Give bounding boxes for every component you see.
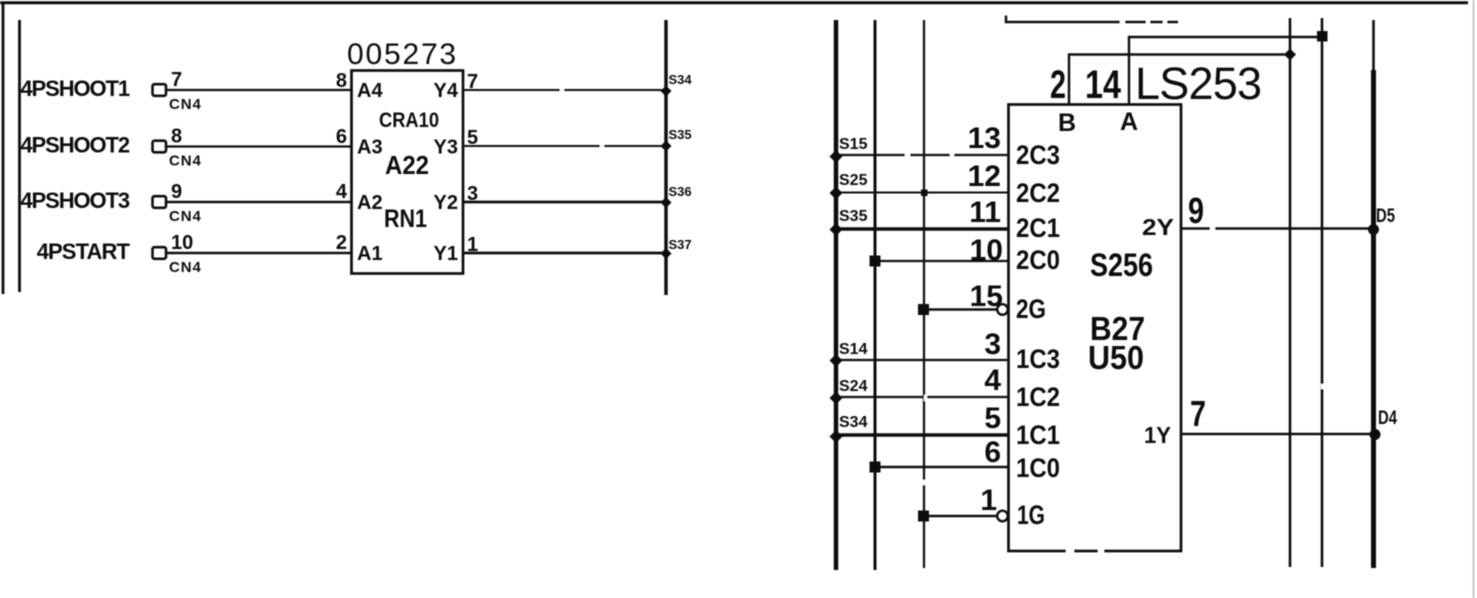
svg-text:CN4: CN4 (169, 259, 202, 276)
svg-text:2: 2 (336, 232, 347, 254)
svg-text:A2: A2 (357, 192, 383, 214)
wire 1Y to D4 (1181, 433, 1376, 435)
wire pin B to bus (1069, 55, 1290, 105)
vertical line 2 (874, 20, 877, 570)
junction S37 (661, 248, 672, 259)
wire CN4.7 to RN1.A4 (166, 89, 351, 91)
wire S14 to 1C3 (836, 359, 1008, 361)
svg-text:3: 3 (984, 328, 1001, 361)
svg-text:7: 7 (1190, 393, 1206, 434)
svg-text:A1: A1 (357, 243, 383, 265)
svg-text:D4: D4 (1378, 408, 1397, 429)
svg-text:S37: S37 (669, 237, 692, 252)
junction S36 (661, 197, 672, 208)
svg-text:2C3: 2C3 (1016, 140, 1060, 170)
junction S15 (830, 150, 843, 163)
svg-text:4PSHOOT1: 4PSHOOT1 (20, 76, 129, 101)
junction S25 (830, 187, 843, 200)
svg-text:S14: S14 (839, 341, 868, 358)
vertical line right 2 (1321, 18, 1324, 567)
svg-text:LS253: LS253 (1135, 58, 1262, 109)
wire pin A to bus (1129, 37, 1322, 104)
wire gap artifacts (560, 20, 1324, 554)
svg-text:4: 4 (336, 181, 348, 203)
left bus line (664, 20, 668, 295)
wire RN1.Y3 to S35 (463, 145, 666, 147)
svg-text:A22: A22 (385, 150, 429, 180)
svg-text:A4: A4 (357, 80, 383, 102)
faint right page edge (1473, 0, 1475, 598)
svg-text:12: 12 (968, 160, 1001, 193)
svg-text:S35: S35 (669, 127, 692, 142)
svg-text:Y2: Y2 (434, 192, 458, 214)
wire S35 to 2C1 (836, 227, 1008, 230)
svg-text:CN4: CN4 (169, 96, 202, 113)
svg-text:RN1: RN1 (384, 205, 427, 233)
wire to 1C0 (875, 466, 1008, 468)
inverter bubble 2G (997, 304, 1008, 315)
svg-text:S24: S24 (839, 378, 868, 395)
svg-text:15: 15 (970, 280, 1003, 313)
junction S24 (830, 392, 843, 405)
wire CN4.10 to RN1.A1 (166, 252, 351, 254)
svg-text:8: 8 (336, 70, 347, 92)
wire to 1G (924, 515, 998, 518)
svg-text:1C3: 1C3 (1016, 344, 1060, 374)
svg-text:CRA10: CRA10 (379, 109, 439, 132)
svg-text:4PSHOOT3: 4PSHOOT3 (20, 188, 129, 213)
svg-text:Y3: Y3 (434, 137, 458, 159)
left rail line (18, 20, 21, 292)
svg-text:1C1: 1C1 (1016, 420, 1060, 450)
junction S34b (830, 430, 843, 443)
svg-text:9: 9 (1188, 190, 1204, 231)
junction on B wire (1284, 49, 1296, 61)
svg-text:2C2: 2C2 (1016, 178, 1060, 208)
connector CN4 pin 10 square (153, 247, 167, 259)
svg-text:11: 11 (969, 196, 1001, 229)
wire S34 to 1C1 (836, 433, 1008, 436)
vertical line right 1 (1289, 18, 1292, 567)
svg-text:1C2: 1C2 (1016, 382, 1060, 412)
connector CN4 pin 8 square (153, 141, 167, 153)
resistor network RN1 body (352, 71, 464, 274)
svg-text:4PSHOOT2: 4PSHOOT2 (20, 133, 129, 158)
svg-text:13: 13 (968, 122, 1001, 155)
junction S35b (830, 223, 843, 236)
svg-text:B: B (1058, 109, 1076, 137)
svg-text:S36: S36 (669, 184, 692, 199)
junction 2G (918, 304, 929, 315)
svg-text:2G: 2G (1016, 294, 1046, 324)
svg-text:S256: S256 (1090, 247, 1153, 283)
svg-text:4PSTART: 4PSTART (37, 239, 131, 264)
svg-text:A: A (1120, 108, 1138, 136)
svg-text:U50: U50 (1088, 339, 1144, 376)
svg-text:8: 8 (171, 126, 182, 148)
svg-text:Y1: Y1 (434, 243, 458, 265)
vertical line 3 (923, 20, 925, 568)
wire S15 to 2C3 (836, 154, 1008, 156)
svg-text:D5: D5 (1376, 206, 1395, 227)
svg-text:2C1: 2C1 (1016, 213, 1060, 243)
svg-text:2: 2 (1050, 63, 1066, 107)
svg-text:10: 10 (171, 232, 193, 254)
junction D5 (1368, 224, 1379, 235)
wire CN4.9 to RN1.A2 (166, 201, 351, 203)
svg-text:Y4: Y4 (434, 80, 459, 102)
svg-text:1G: 1G (1017, 500, 1045, 530)
svg-text:6: 6 (984, 436, 1001, 469)
junction D4 (1370, 429, 1381, 440)
svg-text:1Y: 1Y (1144, 422, 1171, 448)
junction 1C0 (870, 462, 881, 473)
junction 2C0 (870, 256, 881, 267)
svg-text:1: 1 (980, 484, 997, 517)
svg-text:14: 14 (1085, 63, 1122, 107)
svg-text:005273: 005273 (347, 38, 458, 71)
small junction at line3 on S25 wire (921, 190, 928, 197)
junction S35 (661, 141, 672, 152)
wire to 2C0 (875, 260, 1008, 262)
wire 2Y to D5 (1181, 227, 1373, 229)
svg-text:S25: S25 (839, 172, 868, 189)
vertical bus thick left (834, 20, 839, 570)
wire S25 to 2C2 (836, 192, 1008, 194)
page left border (2, 3, 5, 294)
wire to 2G (924, 308, 997, 311)
svg-text:9: 9 (171, 181, 182, 203)
svg-text:A3: A3 (357, 137, 383, 159)
svg-text:6: 6 (336, 126, 347, 148)
page top border (0, 1, 1468, 4)
top stub wire (1006, 16, 1178, 23)
wire RN1.Y1 to S37 (463, 252, 666, 255)
svg-text:S15: S15 (839, 136, 868, 153)
svg-text:10: 10 (970, 234, 1003, 267)
wire CN4.8 to RN1.A3 (166, 145, 351, 147)
inverter bubble 1G (997, 511, 1008, 522)
vertical line right thick (1372, 20, 1375, 70)
junction 1G (918, 511, 929, 522)
svg-text:S34: S34 (839, 414, 868, 431)
wire S24 to 1C2 (836, 396, 1008, 398)
junction S34 (661, 86, 672, 97)
svg-text:CN4: CN4 (169, 208, 202, 225)
junction on A wire (1317, 31, 1328, 42)
svg-text:S34: S34 (669, 72, 693, 87)
svg-text:5: 5 (984, 402, 1001, 435)
connector CN4 pin 7 square (153, 84, 167, 96)
svg-text:S35: S35 (839, 208, 868, 225)
svg-text:1C0: 1C0 (1016, 453, 1060, 483)
mux U50 body (1009, 105, 1182, 552)
svg-text:7: 7 (171, 69, 182, 91)
svg-text:4: 4 (984, 364, 1001, 397)
wire RN1.Y2 to S36 (463, 201, 666, 204)
wire RN1.Y4 to S34 (463, 89, 666, 91)
svg-text:CN4: CN4 (169, 153, 202, 170)
svg-text:2Y: 2Y (1142, 214, 1174, 240)
connector CN4 pin 9 square (153, 196, 167, 208)
junction S14 (830, 354, 843, 367)
svg-text:2C0: 2C0 (1016, 245, 1060, 275)
